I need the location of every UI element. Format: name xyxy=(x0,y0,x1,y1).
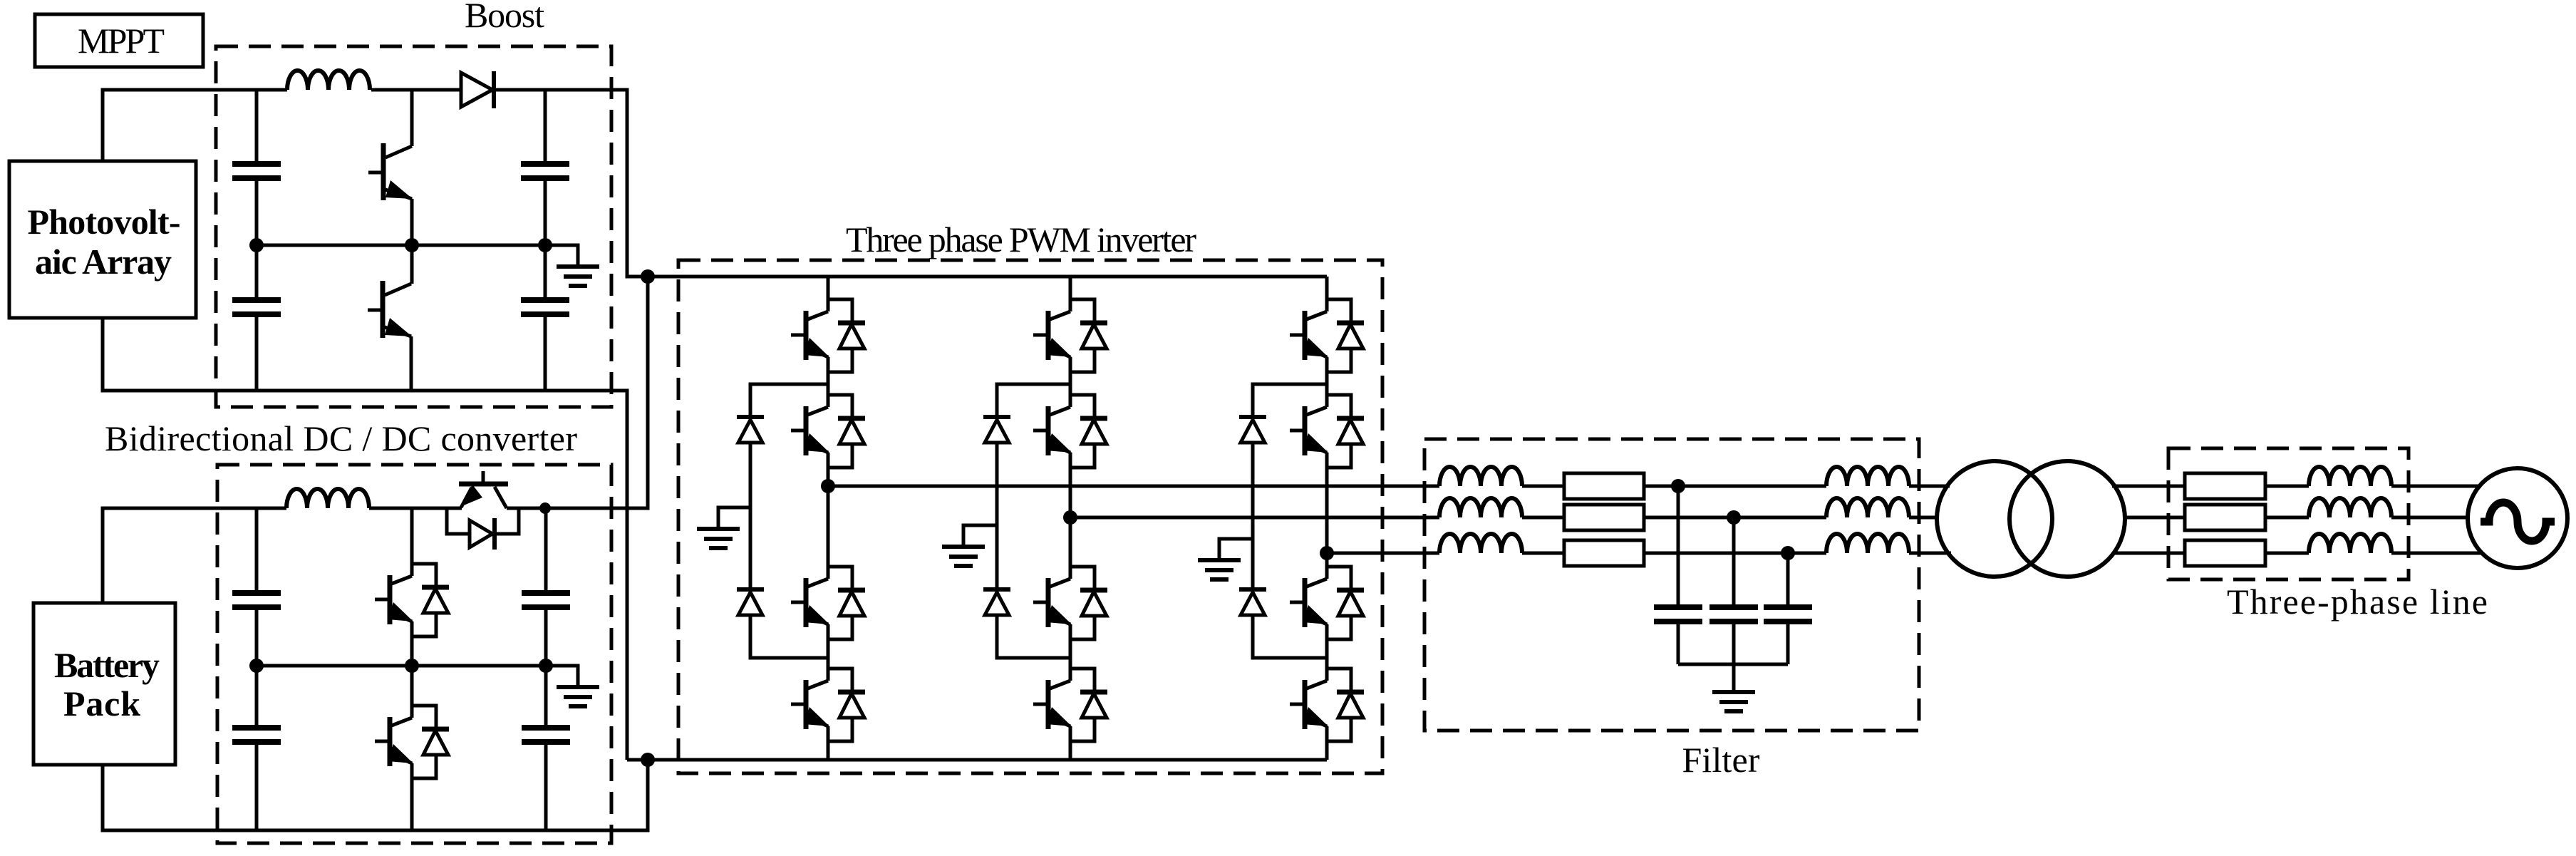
wire filter phase A mid2 xyxy=(1644,485,1826,488)
ground inverter leg 3 xyxy=(1219,539,1253,558)
wire line to grid phase C xyxy=(2391,552,2483,555)
resistor RlB line impedance phase B xyxy=(2185,505,2265,530)
wire line to grid phase B xyxy=(2391,516,2468,520)
svg-text:MPPT: MPPT xyxy=(78,21,165,61)
ground boost midpoint xyxy=(545,245,578,264)
wire filter to transformer phase A xyxy=(1909,485,1950,488)
svg-text:aic Array: aic Array xyxy=(35,242,172,282)
transformer secondary winding circle xyxy=(2009,461,2125,577)
wire battery top xyxy=(103,508,286,603)
capacitor C8 bidir right lower xyxy=(544,666,548,830)
svg-text:Battery: Battery xyxy=(54,645,160,685)
resistor RfC damping phase C xyxy=(1564,540,1644,566)
inductor LfC2 filter output phase C xyxy=(1826,534,1909,553)
IGBT S24 xyxy=(1033,669,1107,741)
IGBT S11 xyxy=(791,299,865,372)
svg-text:Three-phase line: Three-phase line xyxy=(2227,582,2488,622)
resistor RfA damping phase A xyxy=(1564,473,1644,499)
wire filter phase C mid1 xyxy=(1522,552,1564,555)
inductor L2 bidir xyxy=(286,489,369,508)
node bidir mid left xyxy=(249,659,264,673)
wire line phase B mid xyxy=(2265,516,2309,520)
svg-text:Pack: Pack xyxy=(63,684,140,723)
IGBT S22 xyxy=(1033,395,1107,468)
svg-text:Three phase PWM inverter: Three phase PWM inverter xyxy=(846,220,1196,259)
wire inverter bottom bus xyxy=(627,758,1327,762)
dashed box Three phase PWM inverter xyxy=(678,260,1382,773)
resistor RlC line impedance phase C xyxy=(2185,540,2265,566)
node filter shunt tap A xyxy=(1671,479,1685,493)
resistor RlA line impedance phase A xyxy=(2185,473,2265,499)
inductor L1 boost xyxy=(287,71,370,90)
wire boost top right to DC bus xyxy=(495,90,648,277)
inverter leg 2 main vertical xyxy=(1069,277,1072,760)
AC source G1 grid xyxy=(2468,468,2567,568)
wire filter phase C mid2 xyxy=(1644,552,1826,555)
transistor Q1 boost upper xyxy=(410,90,414,146)
IGBT S31 xyxy=(1290,299,1364,372)
inductor LfC1 filter input phase C xyxy=(1439,534,1522,553)
capacitor C6 bidir left lower xyxy=(255,666,259,830)
wire phase output 2 xyxy=(1070,516,1439,520)
svg-text:Bidirectional DC / DC converte: Bidirectional DC / DC converter xyxy=(105,418,577,458)
inductor LfA1 filter input phase A xyxy=(1439,467,1522,486)
node boost mid right xyxy=(538,238,552,252)
diode D1 boost xyxy=(461,73,492,107)
capacitor C4 boost right lower xyxy=(544,245,547,391)
diode D2 bidir bypass xyxy=(447,508,519,534)
wire filter phase A mid1 xyxy=(1522,485,1564,488)
node bidir mid center xyxy=(405,659,419,673)
ground filter xyxy=(1732,664,1736,690)
transistor Q2 boost lower xyxy=(368,281,412,338)
box Photovoltaic Array xyxy=(9,161,196,318)
box MPPT controller xyxy=(35,14,203,67)
node phase output 2 xyxy=(1063,510,1077,525)
capacitor CfA shunt branch A xyxy=(1677,486,1680,664)
wire transformer to line phase C xyxy=(2113,552,2185,555)
inductor LfB2 filter output phase B xyxy=(1826,498,1909,517)
node phase output 1 xyxy=(821,479,835,493)
wire bidir top right to DC bus xyxy=(507,277,648,508)
wire battery bottom xyxy=(103,760,648,830)
wire phase output 1 xyxy=(828,485,1439,488)
wire boost top mid xyxy=(371,88,462,92)
capacitor C5 bidir left upper xyxy=(255,508,259,666)
node phase output 3 xyxy=(1320,546,1334,560)
IGBT S23 xyxy=(1033,567,1107,639)
wire bidir top mid xyxy=(369,507,462,510)
IGBT S13 xyxy=(791,567,865,639)
wire PV bottom to boost return xyxy=(103,318,627,760)
node DC bus negative xyxy=(641,753,655,767)
wire bidir midpoint rail xyxy=(257,664,546,668)
transformer primary winding circle xyxy=(1937,461,2052,577)
inductor LfB1 filter input phase B xyxy=(1439,498,1522,517)
IGBT S12 xyxy=(791,395,865,468)
inverter leg 3 main vertical xyxy=(1325,277,1329,760)
wire phase output 3 xyxy=(1327,552,1439,555)
node bidir mid right xyxy=(539,659,553,673)
dashed box Filter xyxy=(1424,439,1919,731)
dashed box Three-phase line xyxy=(2168,448,2409,579)
IGBT S14 xyxy=(791,669,865,741)
wire line phase C mid xyxy=(2265,552,2309,555)
wire filter phase B mid2 xyxy=(1644,516,1826,520)
wire clamp branch leg 3 xyxy=(1253,384,1327,658)
dashed box Bidirectional DC/DC converter xyxy=(217,465,611,843)
inductor LlC line inductance phase C xyxy=(2309,534,2391,553)
IGBT S34 xyxy=(1290,669,1364,741)
dashed box Boost converter xyxy=(216,46,611,407)
IGBT T1 bidir upper xyxy=(410,508,414,576)
node DC bus positive xyxy=(641,269,655,284)
ground inverter leg 2 xyxy=(963,525,997,545)
svg-text:Photovolt-: Photovolt- xyxy=(28,202,181,242)
wire filter to transformer phase B xyxy=(1909,516,1939,520)
node filter shunt tap C xyxy=(1781,546,1795,560)
clamp diode D3b xyxy=(1239,589,1266,615)
IGBT S33 xyxy=(1290,567,1364,639)
inductor LfA2 filter output phase A xyxy=(1826,467,1909,486)
wire line phase A mid xyxy=(2265,485,2309,488)
wire filter shunt common bus xyxy=(1678,663,1788,666)
capacitor C3 boost right upper xyxy=(544,90,547,245)
wire inverter top bus xyxy=(648,275,1327,279)
inverter leg 1 main vertical xyxy=(827,277,830,760)
IGBT S21 xyxy=(1033,299,1107,372)
clamp diode D1a xyxy=(737,417,764,443)
capacitor CfC shunt branch C xyxy=(1786,553,1790,664)
node filter shunt tap B xyxy=(1727,510,1741,525)
IGBT S32 xyxy=(1290,395,1364,468)
inductor LlB line inductance phase B xyxy=(2309,498,2391,517)
node bidir top right xyxy=(539,502,551,514)
capacitor CfB shunt branch B xyxy=(1732,517,1736,664)
svg-text:Boost: Boost xyxy=(465,0,544,35)
wire clamp branch leg 1 xyxy=(750,384,828,658)
node boost mid left xyxy=(249,238,264,252)
node boost mid center xyxy=(405,238,419,252)
wire filter phase B mid1 xyxy=(1522,516,1564,520)
clamp diode D1b xyxy=(737,589,764,615)
capacitor C2 boost left lower xyxy=(255,245,259,391)
wire PV top to boost input xyxy=(103,90,287,161)
wire transformer to line phase B xyxy=(2124,516,2185,520)
clamp diode D3a xyxy=(1239,417,1266,443)
wire transformer to line phase A xyxy=(2112,485,2185,488)
ground bidir midpoint xyxy=(546,666,578,685)
clamp diode D2b xyxy=(983,589,1010,615)
box Battery Pack xyxy=(33,603,175,765)
IGBT T2 bidir lower xyxy=(375,706,449,778)
capacitor C7 bidir right upper xyxy=(544,508,548,666)
capacitor C1 input top (boost left upper) xyxy=(255,90,259,245)
clamp diode D2a xyxy=(983,417,1010,443)
ground inverter leg 1 xyxy=(718,507,750,527)
resistor RfB damping phase B xyxy=(1564,505,1644,530)
transistor Q3 bidir top (horizontal) xyxy=(459,482,508,487)
svg-text:Filter: Filter xyxy=(1682,740,1760,780)
wire filter to transformer phase C xyxy=(1909,552,1951,555)
wire line to grid phase A xyxy=(2391,485,2481,488)
wire clamp branch leg 2 xyxy=(997,384,1070,658)
wire boost midpoint rail xyxy=(257,244,545,247)
inductor LlA line inductance phase A xyxy=(2309,467,2391,486)
